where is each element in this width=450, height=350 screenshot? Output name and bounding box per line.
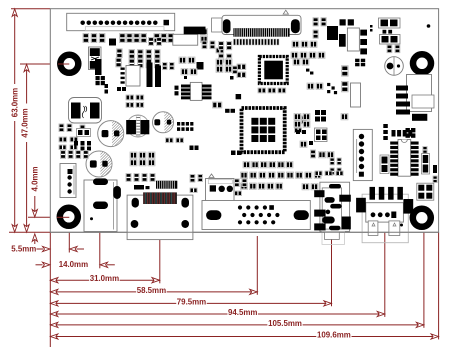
svg-text:5.5mm: 5.5mm	[11, 245, 36, 254]
SMD row2	[117, 49, 161, 59]
SMD row C below U2	[241, 183, 328, 190]
VGA connector J4	[202, 201, 310, 230]
SMD cluster 300-52	[291, 52, 325, 75]
quad pads left of U6	[380, 155, 389, 174]
IC U1 QFP	[259, 57, 287, 84]
dimension 47.0mm vertical line	[21, 64, 30, 232]
svg-text:4.0mm: 4.0mm	[31, 166, 40, 191]
quad below Y1	[355, 59, 365, 67]
dimension 4.0mm	[31, 166, 40, 244]
pads 423-146	[423, 147, 427, 154]
SMD row3	[116, 58, 160, 68]
HDMI connector J1	[84, 178, 117, 231]
pill right of HDMI	[113, 186, 121, 199]
pad quad below hole	[96, 76, 105, 85]
IC U5 small	[121, 66, 141, 87]
power connector CN6	[407, 75, 435, 112]
SMD quad right	[370, 18, 400, 44]
pad right edge	[433, 165, 437, 173]
board bottom edge line	[50, 231, 438, 233]
SMD cluster center	[216, 59, 241, 99]
quad pads right of U6	[422, 154, 430, 175]
dimension 14.0mm	[36, 260, 115, 269]
dimension 105.5mm	[50, 319, 424, 328]
LVDS connector CN1	[67, 13, 175, 30]
SMD row B below U2	[241, 172, 322, 178]
SMD cluster 307-83	[307, 83, 337, 94]
svg-text:63.0mm: 63.0mm	[11, 88, 20, 117]
SOP16 U6	[390, 140, 418, 177]
quad pads	[417, 183, 434, 200]
SMD cluster right 330	[330, 158, 341, 175]
quad pads right col	[406, 128, 416, 138]
electrolytic capacitor E1	[98, 121, 125, 147]
SMD above audio	[315, 171, 343, 176]
audio jack footprint	[314, 182, 351, 244]
power inductor L1	[69, 98, 102, 124]
SMD row below U1	[258, 88, 286, 93]
box right edge 115	[412, 114, 427, 121]
inductor L3 footprint	[126, 115, 149, 137]
pads pair above Y1	[340, 19, 354, 25]
DC jack J5	[356, 187, 413, 243]
resistor pack RP2	[156, 181, 177, 189]
extension line bottom edge left	[9, 231, 50, 233]
hole center line segment bottom	[57, 216, 69, 218]
dimension 58.5mm	[50, 286, 257, 295]
mounting hole top-right	[413, 54, 431, 72]
SMD cluster left-mid	[59, 124, 91, 151]
SMD cluster right of U2	[295, 116, 307, 133]
FFC pin stripes	[233, 28, 289, 37]
SMD cluster right of J3	[234, 179, 247, 196]
pads pair 189	[190, 146, 199, 151]
svg-text:79.5mm: 79.5mm	[177, 297, 206, 306]
dimension 63.0mm vertical line	[11, 9, 20, 232]
dimension 109.6mm	[50, 330, 438, 339]
IC U3 top-left	[173, 34, 198, 45]
SMD row right of U1	[292, 41, 317, 47]
dimension 5.5mm	[11, 245, 84, 254]
FFC connector CN2	[222, 10, 301, 34]
extension hdmi-center vertical	[99, 210, 101, 268]
pad grid above CN5	[61, 151, 89, 159]
SMD pair left of FFC	[201, 29, 208, 43]
SMD cluster center2	[179, 57, 204, 79]
extension line top edge	[11, 8, 50, 10]
pad row below FFC	[234, 39, 279, 45]
SMD cluster left of CN3	[300, 141, 334, 158]
SMD cluster right-top	[313, 18, 338, 40]
extension av-center vertical	[159, 204, 161, 283]
extension jack-center vertical	[384, 203, 386, 317]
svg-text:109.6mm: 109.6mm	[317, 330, 351, 339]
SMD right edge bottom	[433, 176, 437, 183]
dimension 79.5mm	[50, 297, 331, 306]
pads left of CN6	[396, 86, 410, 115]
black bar above U3	[184, 27, 206, 35]
transistor Q1	[385, 45, 404, 75]
extension line bottom hole center	[28, 216, 69, 218]
extension line top hole center	[20, 63, 69, 65]
PCB board outline	[50, 9, 438, 233]
extension right-hole vertical	[423, 230, 425, 328]
pads above U6	[383, 124, 412, 140]
extension vga-center vertical	[256, 236, 258, 295]
AV connector J2	[127, 195, 193, 240]
speaker connector CN4	[353, 129, 372, 180]
pads small 105-88	[105, 84, 127, 94]
dimension 31.0mm	[50, 274, 159, 283]
SMD unit 212-102	[213, 102, 236, 113]
svg-text:14.0mm: 14.0mm	[59, 260, 88, 269]
SMD cluster above DPAK	[126, 95, 144, 107]
svg-text:94.5mm: 94.5mm	[228, 308, 257, 317]
extension right-edge vertical	[438, 232, 440, 339]
AV pin stripes	[143, 192, 177, 204]
electrolytic capacitor E2	[86, 151, 113, 177]
SOP8 U4	[175, 82, 212, 100]
mounting hole top-left	[60, 55, 78, 73]
large pads 341	[342, 66, 349, 92]
electrolytic capacitor E3	[153, 112, 175, 133]
SMD row A below U2	[243, 162, 293, 168]
SMD pair 148	[149, 38, 162, 46]
header J3	[206, 174, 235, 201]
IC U2 main controller	[242, 108, 285, 152]
fiducial dot	[427, 24, 431, 28]
mounting hole bottom-right	[413, 209, 431, 227]
extension hole-center vertical	[68, 229, 70, 253]
white box left of FFC	[212, 18, 222, 32]
SMD cluster U3 right	[202, 41, 224, 53]
SMD pair below caps	[166, 122, 194, 143]
bars right of U5	[147, 63, 175, 88]
svg-text:105.5mm: 105.5mm	[268, 319, 302, 328]
crystal Y1	[339, 28, 367, 54]
SMD cluster center-top	[219, 42, 246, 78]
SMD cluster left-bottom	[130, 152, 155, 166]
SMD cluster mid-right2	[294, 110, 348, 142]
svg-text:31.0mm: 31.0mm	[90, 274, 119, 283]
SMD pads left corner U2	[231, 151, 242, 156]
component C near hole	[89, 47, 102, 70]
black bar 95	[95, 59, 102, 75]
svg-text:58.5mm: 58.5mm	[137, 286, 166, 295]
extension left edge vertical	[49, 232, 51, 347]
white box 350-83	[351, 83, 361, 107]
mounting hole bottom-left	[60, 208, 78, 226]
SMD row below CN1	[83, 34, 174, 46]
svg-text:47.0mm: 47.0mm	[21, 108, 30, 137]
hole center line segment top	[58, 63, 69, 65]
SMD cluster above J3	[190, 174, 203, 192]
extension audio-center vertical	[331, 210, 333, 306]
pin header CN5	[60, 164, 76, 198]
dimension 94.5mm	[50, 308, 385, 317]
SMD row above AV	[126, 174, 155, 182]
dark bar above AV	[134, 185, 150, 190]
